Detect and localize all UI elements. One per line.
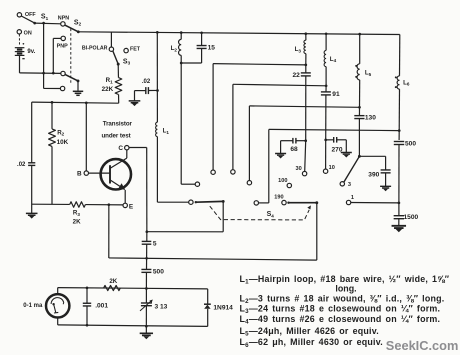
wire L4 bottom lead — [325, 67, 327, 86]
switch S4 gang link arrow — [307, 205, 311, 209]
wire L2 column down — [180, 63, 182, 184]
svg-text:L6—62 μh, Miller 4630 or equiv: L6—62 μh, Miller 4630 or equiv. — [240, 337, 383, 349]
wire 1500 lower — [398, 219, 400, 226]
capacitor 68 — [292, 138, 294, 144]
wire 68 ground drop — [280, 141, 282, 154]
wire diode upper — [207, 289, 209, 304]
ground below .02 — [129, 101, 141, 103]
capacitor 500 — [394, 141, 404, 143]
wire ON to battery (dashed) — [18, 34, 20, 45]
wire below cap 5 — [146, 244, 148, 258]
node 68 junction — [304, 139, 307, 142]
transistor collector terminal C — [125, 146, 129, 150]
wire L5 column mid — [358, 107, 360, 115]
svg-text:NPN: NPN — [58, 16, 69, 22]
wire L5 tap bus — [249, 106, 359, 107]
ground below left column — [26, 213, 38, 215]
switch S4B contact 10 — [323, 169, 327, 173]
wire L3 column lower — [305, 76, 307, 141]
wire L5 bottom lead — [359, 80, 361, 107]
wire left column upper — [31, 102, 33, 163]
wire meter top — [57, 288, 59, 295]
node S4 wiper 2 pivot — [315, 201, 318, 204]
switch S4B contact 3 — [340, 182, 344, 186]
wire 500 upper lead — [398, 131, 400, 140]
wire base drop — [85, 103, 87, 171]
wire left column lower — [31, 166, 33, 214]
node S4 wiper 1 tip — [195, 201, 197, 203]
node L4 top on bus — [325, 32, 328, 35]
node R2 top — [51, 101, 54, 104]
wire diode lower — [207, 309, 209, 327]
node varcap bottom — [145, 325, 148, 328]
wire S1 column down — [43, 23, 45, 88]
svg-text:2K: 2K — [73, 218, 81, 225]
svg-text:500: 500 — [153, 269, 164, 276]
svg-text:3: 3 — [348, 182, 351, 188]
wire L1 column bottom — [156, 137, 158, 203]
node S4 wiper 1 pivot — [222, 200, 225, 203]
switch S4 wiper 2 arm — [289, 202, 317, 204]
inductor L2 — [179, 39, 182, 55]
transistor Q1 emitter riser — [124, 190, 126, 203]
node L3 top on bus — [304, 32, 307, 35]
ground below 68 — [275, 154, 286, 156]
wire above cap 500 — [146, 258, 148, 269]
svg-text:.02: .02 — [142, 79, 151, 85]
capacitor .02 right — [145, 87, 147, 94]
node base junction — [85, 102, 88, 105]
capacitor 3-13 variable — [141, 302, 152, 304]
switch S4 contact 190 — [282, 200, 286, 204]
ground below S2 — [73, 90, 83, 92]
svg-text:SeekIC.com: SeekIC.com — [386, 338, 459, 353]
wire battery bottom — [19, 56, 21, 73]
svg-text:30: 30 — [295, 166, 301, 172]
wire .001 upper — [86, 288, 88, 303]
wire R2 top lead — [51, 102, 53, 128]
wire 390 upper — [385, 156, 387, 170]
wire cap15 bottom lead — [201, 49, 203, 64]
wire meter top bus — [58, 288, 208, 289]
wire pivot to 390 — [359, 155, 385, 157]
svg-text:22: 22 — [292, 72, 300, 79]
svg-text:68: 68 — [290, 146, 298, 153]
switch S1 ON contact — [17, 30, 21, 34]
switch S1 OFF contact — [17, 13, 21, 17]
node cap5 column on bus — [145, 257, 148, 260]
switch S4 contact L3 — [211, 170, 215, 174]
resistor R3 2K — [70, 202, 86, 207]
svg-text:1: 1 — [351, 195, 354, 201]
inductor L6 — [397, 76, 399, 89]
node L5 bottom — [358, 106, 361, 109]
inductor L3 — [304, 40, 306, 53]
wire collector column — [146, 148, 148, 232]
node battery-S1 junction — [42, 72, 45, 75]
svg-text:10K: 10K — [57, 139, 69, 146]
wire 1500 upper — [398, 203, 400, 216]
switch S4 wiper 1 arm — [196, 200, 223, 203]
node S4 wiper 2 tip — [287, 202, 289, 204]
ground below varcap — [140, 333, 153, 335]
wire L5 column lower — [358, 119, 360, 157]
wire L3 bottom lead — [305, 54, 307, 65]
svg-text:FET: FET — [130, 47, 141, 53]
wire L2 bottom lead — [180, 55, 182, 63]
wire 270 right — [337, 139, 347, 141]
wire S4 wiper 1 pole left — [147, 231, 223, 233]
svg-text:B: B — [77, 171, 82, 178]
wire 270 left — [326, 139, 334, 141]
transistor Q1 base wire — [89, 172, 111, 174]
wire below cap 500 — [145, 272, 147, 288]
svg-text:0-1 ma: 0-1 ma — [23, 303, 43, 309]
switch S4B contact 30 — [302, 171, 306, 175]
wire bus to BI-POLAR contact — [110, 32, 112, 47]
switch S4B wiper arm — [344, 156, 359, 182]
wire varcap lower — [145, 306, 147, 326]
wire contact padder column — [268, 129, 270, 203]
svg-text:100: 100 — [278, 178, 287, 184]
inductor L5 — [357, 64, 360, 80]
wire cap15 top lead — [201, 33, 203, 46]
wire PNP contact left — [53, 37, 61, 39]
switch S4 contact L5 — [247, 181, 251, 185]
wire emitter riser — [108, 205, 110, 258]
node collector-wiper junction — [146, 230, 149, 233]
node 270 junction — [324, 139, 327, 142]
wire contact padder right — [259, 202, 269, 204]
wire feedback bus — [109, 258, 317, 260]
wire L3 tap bus — [213, 64, 306, 65]
wire R1 bottom — [118, 95, 120, 104]
resistor 2K bottom — [104, 285, 121, 290]
diode 1N914 — [204, 303, 211, 305]
wire L3 column mid — [305, 65, 307, 73]
wire bottom bus — [58, 325, 208, 327]
node cap15 top on bus — [200, 31, 203, 34]
switch S2 contact lower (pole 2) — [60, 86, 64, 90]
resistor R2 — [49, 129, 56, 147]
wire L1 to contact — [157, 201, 188, 203]
transistor Q1 collector lead — [110, 158, 127, 168]
capacitor 15 — [197, 45, 207, 47]
switch S4 contact padder — [254, 201, 258, 205]
node L2 bottom — [180, 62, 183, 65]
svg-text:91: 91 — [332, 91, 340, 98]
inductor L5 slug dots — [355, 65, 357, 67]
inductor L6 slug dots — [395, 76, 397, 78]
transistor Q1 emitter arrow — [118, 183, 125, 190]
svg-text:ON: ON — [24, 31, 32, 37]
wire collector to column — [129, 147, 147, 149]
wire R3 to emitter — [85, 204, 123, 206]
wire top bus — [78, 32, 400, 35]
wire S4 wiper 1 pole down — [222, 201, 224, 231]
switch S3 contact FET — [124, 48, 128, 52]
transistor Q1 emitter lead — [110, 180, 125, 190]
svg-text:190: 190 — [274, 195, 283, 201]
node contact1 bus junction — [398, 202, 401, 205]
wire L2 top lead — [180, 33, 182, 40]
svg-text:OFF: OFF — [25, 12, 36, 18]
svg-text:1500: 1500 — [404, 214, 419, 221]
transistor Q1 base bar — [109, 165, 111, 183]
wire L1 column top — [156, 32, 158, 122]
wire padder bus — [269, 129, 399, 130]
wire 500 to 1500 — [398, 145, 400, 203]
wire 68 left — [281, 140, 293, 142]
wire S4 wiper 2 pole down — [316, 203, 318, 260]
node S2 pole 1 pivot — [77, 30, 80, 33]
svg-text:L5—24μh, Miller 4626 or equiv.: L5—24μh, Miller 4626 or equiv. — [240, 326, 379, 338]
wire contact 1 to column — [351, 202, 399, 204]
transistor emitter terminal E — [123, 203, 127, 207]
switch S4 contact L4 — [231, 170, 235, 174]
node emitter riser junction — [108, 203, 111, 206]
capacitor 130 — [354, 115, 364, 117]
ground below 390 — [380, 186, 391, 188]
wire L4 column lower — [325, 95, 327, 140]
svg-text:15: 15 — [208, 44, 216, 51]
svg-text:5: 5 — [153, 241, 157, 248]
inductor L4 — [324, 50, 326, 66]
node .001 bottom — [86, 324, 89, 327]
wire contact L5 column — [248, 106, 250, 180]
node L4 bottom — [325, 84, 328, 87]
wire varcap upper — [145, 289, 147, 303]
svg-text:130: 130 — [365, 115, 376, 122]
wire contact L3 column — [212, 64, 214, 170]
capacitor 3-13 arrow — [140, 301, 151, 311]
svg-text:10: 10 — [329, 165, 335, 171]
wire cap15 to L2 — [181, 62, 201, 64]
wire .02 ground drop — [134, 91, 136, 101]
wire PNP column down — [52, 38, 54, 73]
wire L2 to contact — [181, 183, 195, 185]
battery B1 minus mark — [22, 58, 24, 60]
node S1 pole — [33, 22, 36, 25]
switch S4 contact L2 — [195, 182, 199, 186]
node L6 bottom on padder bus — [398, 129, 401, 132]
ground below 270 — [341, 153, 352, 155]
transistor Q1 collector riser — [126, 150, 128, 158]
wire .001 lower — [86, 306, 88, 325]
node S4B wiper pivot — [358, 155, 361, 158]
wire L6 bottom lead — [398, 89, 400, 131]
transistor Q1 body — [101, 159, 131, 189]
wire L4 top lead — [325, 34, 327, 51]
switch S4 contact L1 (osc) — [189, 200, 193, 204]
wire S3 to R1 — [117, 64, 119, 78]
wire above cap 5 — [146, 232, 148, 242]
wire S1 to NPN contact — [35, 22, 61, 25]
ground below 1500 — [392, 226, 407, 228]
wire varcap ground stub — [145, 326, 147, 333]
svg-text:C: C — [118, 145, 123, 152]
svg-text:3 13: 3 13 — [155, 303, 168, 310]
svg-text:PNP: PNP — [57, 43, 68, 49]
wire contact L4 column — [232, 84, 234, 169]
svg-text:.02: .02 — [17, 162, 26, 168]
wire meter bottom — [57, 318, 59, 325]
wire L3 top lead — [305, 34, 307, 41]
svg-text:390: 390 — [368, 171, 379, 178]
battery B1 plus mark — [23, 43, 25, 45]
node S3 pivot — [117, 63, 120, 66]
node S1 junction — [42, 22, 45, 25]
wire 390 lower — [385, 173, 387, 186]
wire L4 tap bus — [233, 84, 326, 86]
wire ground to R2 bottom — [32, 203, 70, 205]
wire L3 column to contact — [305, 141, 306, 172]
inductor L1 — [156, 122, 158, 136]
node .001 top — [86, 287, 89, 290]
svg-text:Transistor: Transistor — [103, 120, 133, 127]
capacitor .02 left — [28, 162, 35, 164]
wire .02 right — [149, 89, 158, 91]
svg-text:9v.: 9v. — [27, 49, 35, 55]
svg-text:E: E — [129, 203, 134, 210]
switch S4 gang link (dashed) — [210, 206, 309, 220]
wire base bus — [32, 102, 119, 103]
capacitor 270 — [333, 137, 335, 143]
capacitor 500 upper — [141, 268, 151, 270]
wire S2 pivot to ground — [77, 81, 79, 91]
meter M scale arc — [51, 298, 64, 305]
node L3 bottom — [304, 64, 307, 67]
node .02 junction — [156, 89, 159, 92]
wire battery return — [20, 72, 61, 75]
switch S2 contact PNP (pole 1) — [61, 36, 65, 40]
node battery-PNP junction — [52, 72, 55, 75]
battery B1 9v — [15, 47, 25, 49]
node L5 top on bus — [358, 33, 361, 36]
switch S2 gang link (dashed) — [70, 29, 72, 85]
capacitor 1500 — [394, 215, 404, 217]
svg-text:L4—49 turns #26 e closewound o: L4—49 turns #26 e closewound on ¼″ form. — [240, 314, 441, 326]
switch S2 contact NPN (pole 1) — [61, 22, 65, 26]
node L1 top on bus — [156, 31, 159, 34]
meter M needle — [54, 304, 59, 313]
capacitor 390 — [381, 169, 391, 171]
svg-text:long.: long. — [335, 284, 356, 294]
node S2 pole 2 pivot — [77, 79, 80, 82]
wire R2 bottom lead — [51, 146, 53, 204]
switch S2 arm (pole 1) — [65, 25, 79, 32]
switch S2 arm (pole 2) — [65, 74, 78, 81]
switch S3 arm — [113, 51, 118, 64]
svg-text:.001: .001 — [95, 302, 108, 309]
switch S2 contact upper (pole 2) — [61, 71, 65, 75]
transistor base terminal B — [84, 171, 88, 175]
svg-text:under test: under test — [101, 132, 130, 139]
meter M body — [46, 294, 69, 317]
wire L5 top lead — [359, 34, 361, 64]
wire L4 column to contact — [325, 140, 327, 169]
wire L6 top lead — [399, 35, 401, 76]
svg-text:2K: 2K — [109, 278, 117, 285]
capacitor .001 — [83, 302, 91, 304]
capacitor 22 — [301, 72, 311, 74]
node L2 top on bus — [180, 31, 183, 34]
resistor R1 — [115, 78, 122, 95]
wire .02 left — [135, 90, 146, 92]
svg-text:1N914: 1N914 — [213, 304, 233, 311]
svg-text:500: 500 — [405, 141, 416, 148]
wire 270 ground drop — [345, 140, 347, 152]
svg-text:22K: 22K — [102, 86, 114, 93]
switch S4 contact 100 — [287, 183, 291, 187]
svg-text:BI-POLAR: BI-POLAR — [82, 46, 108, 52]
switch S1 arm — [21, 16, 34, 23]
wire to lower NPN contact — [44, 87, 61, 89]
wire 68 right — [296, 140, 306, 142]
svg-text:270: 270 — [331, 146, 342, 153]
wire L4 column mid — [325, 86, 327, 92]
capacitor 5 — [142, 240, 152, 242]
switch S4B contact 1 — [346, 200, 350, 204]
switch S3 contact BI-POLAR — [109, 47, 113, 51]
capacitor 91 — [321, 91, 331, 93]
node cap500 bottom junction — [145, 287, 148, 290]
